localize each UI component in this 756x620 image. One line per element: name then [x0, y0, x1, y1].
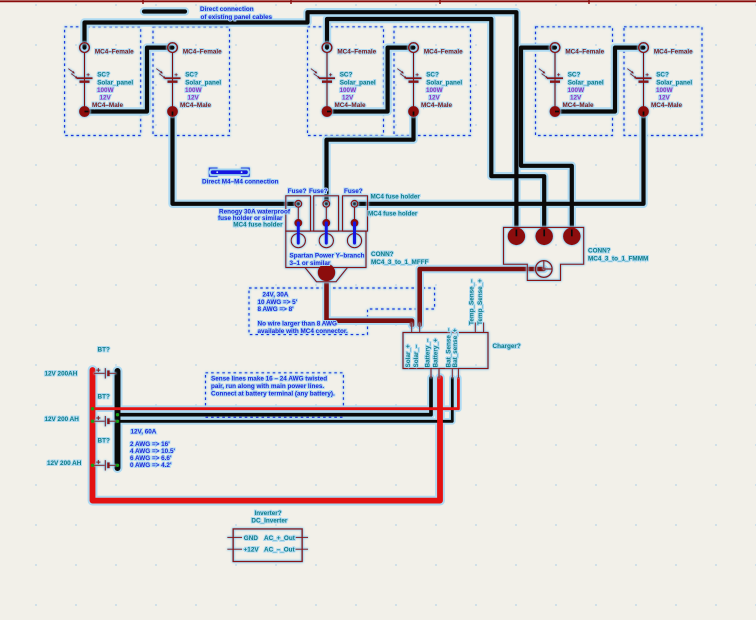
svg-text:6 AWG => 6.6': 6 AWG => 6.6': [130, 455, 172, 462]
svg-text:Temp_Sense_–: Temp_Sense_–: [469, 279, 476, 325]
svg-text:12V 200AH: 12V 200AH: [45, 371, 78, 378]
svg-text:Inverter?: Inverter?: [255, 510, 282, 517]
svg-text:2 AWG => 16': 2 AWG => 16': [130, 441, 170, 448]
svg-text:MC4 fuse holder: MC4 fuse holder: [371, 193, 421, 200]
svg-text:12V, 60A: 12V, 60A: [131, 428, 157, 435]
svg-text:DC_Inverter: DC_Inverter: [251, 518, 287, 525]
svg-text:CONN?: CONN?: [588, 247, 611, 254]
svg-text:Solar_+: Solar_+: [405, 344, 412, 367]
svg-text:3–1 or similar: 3–1 or similar: [290, 260, 331, 267]
svg-text:BT?: BT?: [98, 394, 110, 401]
svg-text:4 AWG => 10.5': 4 AWG => 10.5': [130, 448, 175, 455]
svg-text:pair, run along with main powe: pair, run along with main power lines.: [211, 383, 324, 390]
svg-text:AC_–_Out: AC_–_Out: [264, 547, 296, 554]
svg-text:0 AWG => 4.2': 0 AWG => 4.2': [130, 462, 172, 469]
svg-text:12V 200 AH: 12V 200 AH: [45, 416, 80, 423]
svg-text:Charger?: Charger?: [493, 343, 521, 350]
svg-text:of existing panel cables: of existing panel cables: [201, 14, 273, 21]
svg-text:Fuse?: Fuse?: [344, 188, 363, 195]
svg-text:10 AWG => 5': 10 AWG => 5': [258, 299, 298, 306]
svg-text:Fuse?: Fuse?: [309, 188, 328, 195]
svg-text:Bat_sense_+: Bat_sense_+: [452, 328, 459, 367]
svg-text:Battery_–: Battery_–: [424, 338, 431, 367]
svg-text:Connect at battery terminal (a: Connect at battery terminal (any battery…: [211, 391, 335, 398]
svg-text:CONN?: CONN?: [371, 251, 394, 258]
svg-text:Temp_Sense_+: Temp_Sense_+: [477, 279, 484, 325]
svg-text:MC4 fuse holder: MC4 fuse holder: [368, 210, 418, 217]
svg-text:available with MC4 connector.: available with MC4 connector.: [258, 328, 348, 335]
svg-text:12V 200 AH: 12V 200 AH: [47, 460, 82, 467]
svg-text:Spartan Power Y–branch: Spartan Power Y–branch: [290, 252, 365, 259]
svg-text:Battery_+: Battery_+: [432, 338, 439, 367]
svg-text:BT?: BT?: [98, 438, 110, 445]
svg-text:AC_+_Out: AC_+_Out: [264, 535, 296, 542]
svg-text:GND: GND: [244, 535, 259, 542]
svg-text:MC4_3_to_1_FMMM: MC4_3_to_1_FMMM: [588, 255, 648, 262]
svg-text:Direct connection: Direct connection: [200, 6, 254, 13]
svg-text:+12V: +12V: [244, 547, 260, 554]
svg-text:MC4 fuse holder: MC4 fuse holder: [233, 222, 283, 229]
svg-text:Fuse?: Fuse?: [288, 188, 307, 195]
svg-text:No wire larger than 8 AWG: No wire larger than 8 AWG: [258, 321, 337, 328]
svg-text:Sense lines make 16 – 24 AWG t: Sense lines make 16 – 24 AWG twisted: [211, 376, 327, 383]
svg-text:Solar_–: Solar_–: [413, 344, 420, 367]
svg-text:8 AWG => 8': 8 AWG => 8': [258, 306, 295, 313]
svg-text:Direct M4–M4 connection: Direct M4–M4 connection: [202, 179, 279, 186]
svg-text:BT?: BT?: [98, 346, 110, 353]
svg-text:24V, 30A: 24V, 30A: [263, 292, 289, 299]
svg-text:MC4_3_to_1_MFFF: MC4_3_to_1_MFFF: [371, 259, 429, 266]
